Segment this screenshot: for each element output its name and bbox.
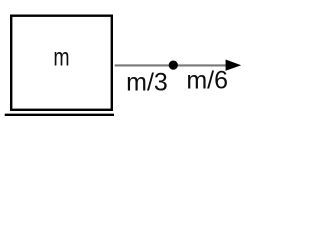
- block m (box): [11, 16, 112, 110]
- ground line: [5, 114, 114, 116]
- svg-text:m/6: m/6: [186, 67, 228, 95]
- node (junction dot): [169, 61, 178, 70]
- svg-text:m/3: m/3: [126, 68, 168, 96]
- arrowhead: [226, 60, 242, 71]
- svg-text:m: m: [53, 44, 69, 72]
- wire (string from block): [115, 64, 227, 66]
